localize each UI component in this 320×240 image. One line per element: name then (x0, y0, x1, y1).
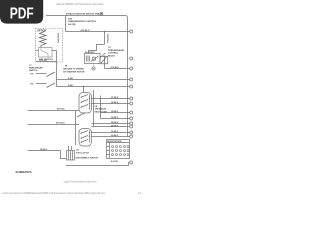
terminal T6 (130, 97, 133, 100)
terminal T11 (130, 125, 133, 128)
svg-text:T/M: T/M (68, 18, 72, 20)
svg-text:4TH BLU: 4TH BLU (111, 66, 120, 69)
wire connector pins (69, 146, 72, 150)
svg-text:WHT/GRN: WHT/GRN (57, 33, 59, 43)
terminal T12 (130, 131, 133, 134)
range switch gang 1 (79, 93, 92, 114)
svg-text:RESISTOR MOD: RESISTOR MOD (107, 141, 122, 143)
svg-text:3B BLU: 3B BLU (111, 102, 119, 104)
svg-text:A-1234: A-1234 (111, 160, 118, 163)
wire 3B BLU b (101, 112, 130, 114)
wire top supply line (46, 16, 128, 19)
wire 3D BLU (92, 98, 130, 100)
svg-text:A RD: A RD (68, 77, 74, 80)
terminal T8 (130, 111, 133, 114)
junction on 4TH BLU (104, 31, 106, 33)
wire clutch feed 3B BLK (28, 151, 67, 159)
svg-text:TRANSMISSION CONTROL: TRANSMISSION CONTROL (68, 20, 97, 23)
svg-text:W: W (65, 66, 67, 68)
wire range input blade (77, 113, 85, 118)
ground lead dashed (93, 64, 95, 67)
wire 4TH RD option (36, 61, 57, 63)
svg-text:SCHEMATICS: SCHEMATICS (16, 170, 32, 174)
option dashed box (36, 29, 63, 63)
svg-text:RELAY: RELAY (108, 54, 115, 57)
terminal T9 (130, 117, 133, 120)
wire range feed vertical (75, 111, 77, 146)
terminal T14 (130, 161, 133, 164)
svg-text:A RD: A RD (68, 84, 74, 87)
terminal T2 (130, 57, 133, 60)
svg-text:3A BLK: 3A BLK (111, 134, 119, 137)
terminal T13 (130, 135, 133, 138)
wire A RD bus lower (57, 86, 130, 88)
terminal T5 (130, 85, 133, 88)
terminal T3 (130, 67, 133, 70)
wire park brake input 1 (36, 73, 47, 75)
resistor R1 (40, 32, 47, 48)
svg-text:PDF: PDF (10, 4, 34, 22)
svg-text:3B BLK: 3B BLK (111, 125, 119, 127)
svg-text:scribd-com-document-4415968-Ma: scribd-com-document-4415968-Manual-11098… (2, 192, 105, 195)
svg-text:4TH BLU: 4TH BLU (56, 122, 65, 125)
wire 4TH BLU feed (66, 16, 130, 32)
wire range rout vertical 1 (93, 90, 95, 127)
svg-text:4TH RD: 4TH RD (57, 108, 65, 111)
svg-text:ATTACH IGNITION SWITCH TRACK: ATTACH IGNITION SWITCH TRACK (66, 13, 103, 16)
ground W starter motor (92, 67, 95, 70)
wire branch to relay (89, 32, 105, 54)
terminal T1 (130, 30, 133, 33)
svg-text:3B BLK: 3B BLK (111, 122, 119, 124)
wire right bus (127, 18, 129, 137)
wire 3B BLU a (92, 103, 130, 105)
module pin grid (112, 146, 114, 148)
wire 4WL switch stub left (36, 50, 39, 52)
wire park brake input 2 (36, 83, 47, 85)
switch S1 park brake contact 2 (47, 83, 56, 88)
wire 4TH BLU row (28, 124, 80, 126)
svg-text:4TH RD: 4TH RD (40, 59, 48, 62)
junction A RD (83, 86, 85, 88)
svg-text:GROUND TO FRAME: GROUND TO FRAME (63, 68, 84, 71)
svg-text:DISCONNECT SWITCH: DISCONNECT SWITCH (76, 157, 99, 159)
svg-text:3D BLU: 3D BLU (111, 97, 119, 99)
wire 3B BLU c (101, 118, 130, 120)
svg-text:OF STARTER MOTOR: OF STARTER MOTOR (63, 70, 85, 73)
svg-text:SWITCH: SWITCH (29, 70, 38, 72)
svg-text:3B BLU: 3B BLU (111, 117, 119, 119)
svg-text:3B BLU: 3B BLU (111, 111, 119, 113)
wire 3B BLK a (92, 123, 130, 125)
wire bottom bus (66, 163, 129, 166)
PDF badge (0, 0, 43, 24)
wire park brake bus (56, 51, 58, 87)
terminal T7 (130, 102, 133, 105)
wire 4TH BLU to terminal (105, 68, 130, 70)
wire 3B BLK b (92, 126, 130, 128)
svg-text:T/M RANGE: T/M RANGE (95, 108, 107, 111)
4WL switch box (39, 48, 53, 58)
switch S1 park brake contact 1 (47, 72, 56, 77)
wire range bus drop (83, 87, 85, 93)
svg-text:3A-7(8): 3A-7(8) (68, 23, 76, 26)
wire 4WL switch stub right (52, 50, 57, 52)
starter motor M1 (85, 53, 106, 64)
svg-text:3B BLK: 3B BLK (40, 149, 48, 151)
connector C8 box (67, 151, 75, 161)
svg-text:CONTROL: CONTROL (108, 53, 119, 55)
svg-text:T/M CLUTCH: T/M CLUTCH (76, 152, 89, 154)
wire 4TH RD row (28, 110, 80, 112)
svg-text:3A BLK: 3A BLK (111, 130, 119, 133)
wire 3A BLK a (92, 132, 130, 134)
wire A RD bus upper (57, 79, 130, 81)
relay contact K1 (100, 56, 108, 69)
svg-text:Manual 11098913 pdf Transmiss: Manual 11098913 pdf Transmission Schemat… (57, 2, 104, 6)
4WL switch inner contact (41, 48, 48, 58)
svg-text:TRANSMISSION: TRANSMISSION (108, 49, 124, 52)
svg-text:SELECT SW: SELECT SW (95, 111, 107, 113)
svg-text:Copyright © Construction Machi: Copyright © Construction Machinery all r… (64, 181, 97, 184)
wire range rout vertical 2 (100, 96, 102, 119)
svg-text:OPTION: OPTION (37, 30, 46, 33)
terminal circle ign (100, 12, 103, 15)
terminal T10 (130, 122, 133, 125)
wire module out stub (129, 162, 130, 164)
svg-text:M1 START: M1 START (85, 51, 96, 54)
svg-text:WHT/BLU: WHT/BLU (106, 34, 108, 44)
resistor module A1 (107, 140, 130, 159)
svg-text:4TH BLU: 4TH BLU (81, 29, 90, 32)
wire 3A BLK b (92, 136, 130, 138)
range switch gang 2 (79, 129, 92, 147)
terminal T4 (130, 78, 133, 81)
